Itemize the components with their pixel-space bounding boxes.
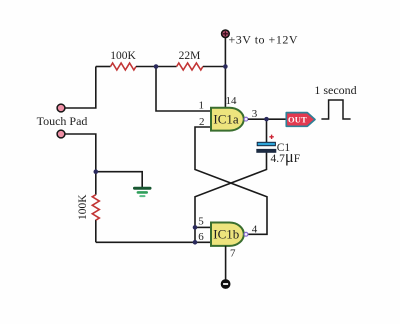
minus terminal [221,280,230,289]
node C junction [264,117,269,122]
touch pad terminal 1 [57,104,65,112]
capacitor C1 [257,135,276,153]
power terminal +V [222,30,230,38]
svg-text:100K: 100K [110,50,136,62]
wire: +V down through node B to pin 14 [224,38,226,107]
pulse waveform [321,100,350,119]
wire: pin 2 to cross-couple right down to pin 4 [195,127,267,234]
svg-text:22M: 22M [179,50,201,62]
ground [133,187,152,197]
inverter bubble IC1b output [244,232,248,236]
svg-text:1 second: 1 second [314,83,356,97]
op-amp gate IC1b [211,223,244,246]
node B junction [223,64,228,69]
wire: touch pad terminal 1 to top rail [61,67,96,109]
svg-text:2: 2 [199,116,205,128]
svg-text:OUT: OUT [288,114,307,124]
OUT arrow [286,113,315,127]
resistor R3 100K (vertical) [92,195,99,221]
wire: node C down to capacitor top [266,119,268,142]
wire: pin 5 [195,226,211,228]
wire: capacitor bottom to cross-couple left down to pin 6 [195,153,267,243]
wire: bottom rail pin 6 [96,241,211,243]
wire: terminal 2 to node F down through R3 to bottom rail [61,134,96,242]
resistor R2 22M [177,63,203,70]
svg-text:3: 3 [252,108,258,120]
svg-text:+3V to +12V: +3V to +12V [229,33,298,47]
svg-text:4: 4 [252,224,258,236]
wire: top rail segment left of R1 [96,66,111,68]
wire: node A down and right to pin 1 [156,67,211,112]
svg-text:6: 6 [198,231,204,243]
node D junction [193,225,198,230]
wire: node F to ground [96,172,142,187]
op-amp gate IC1a [211,108,244,131]
svg-text:14: 14 [226,95,238,107]
svg-text:IC1a: IC1a [213,112,239,127]
inverter bubble IC1a output [244,117,248,121]
svg-text:5: 5 [198,216,204,228]
node E junction [193,240,198,245]
wire: node A segment [136,66,177,68]
wire: pin 3 to OUT [248,118,286,120]
resistor R1 100K (horizontal) [111,63,137,70]
touch pad terminal 2 [57,130,65,138]
svg-text:Touch Pad: Touch Pad [37,114,88,128]
wire: 22M right to node B [203,66,226,68]
svg-text:IC1b: IC1b [213,227,239,242]
node A junction [154,64,159,69]
node F junction [94,169,99,174]
svg-text:100K: 100K [77,194,89,220]
svg-text:7: 7 [230,248,236,260]
wire: pin 7 down to minus terminal [225,246,227,280]
svg-text:1: 1 [199,100,205,112]
